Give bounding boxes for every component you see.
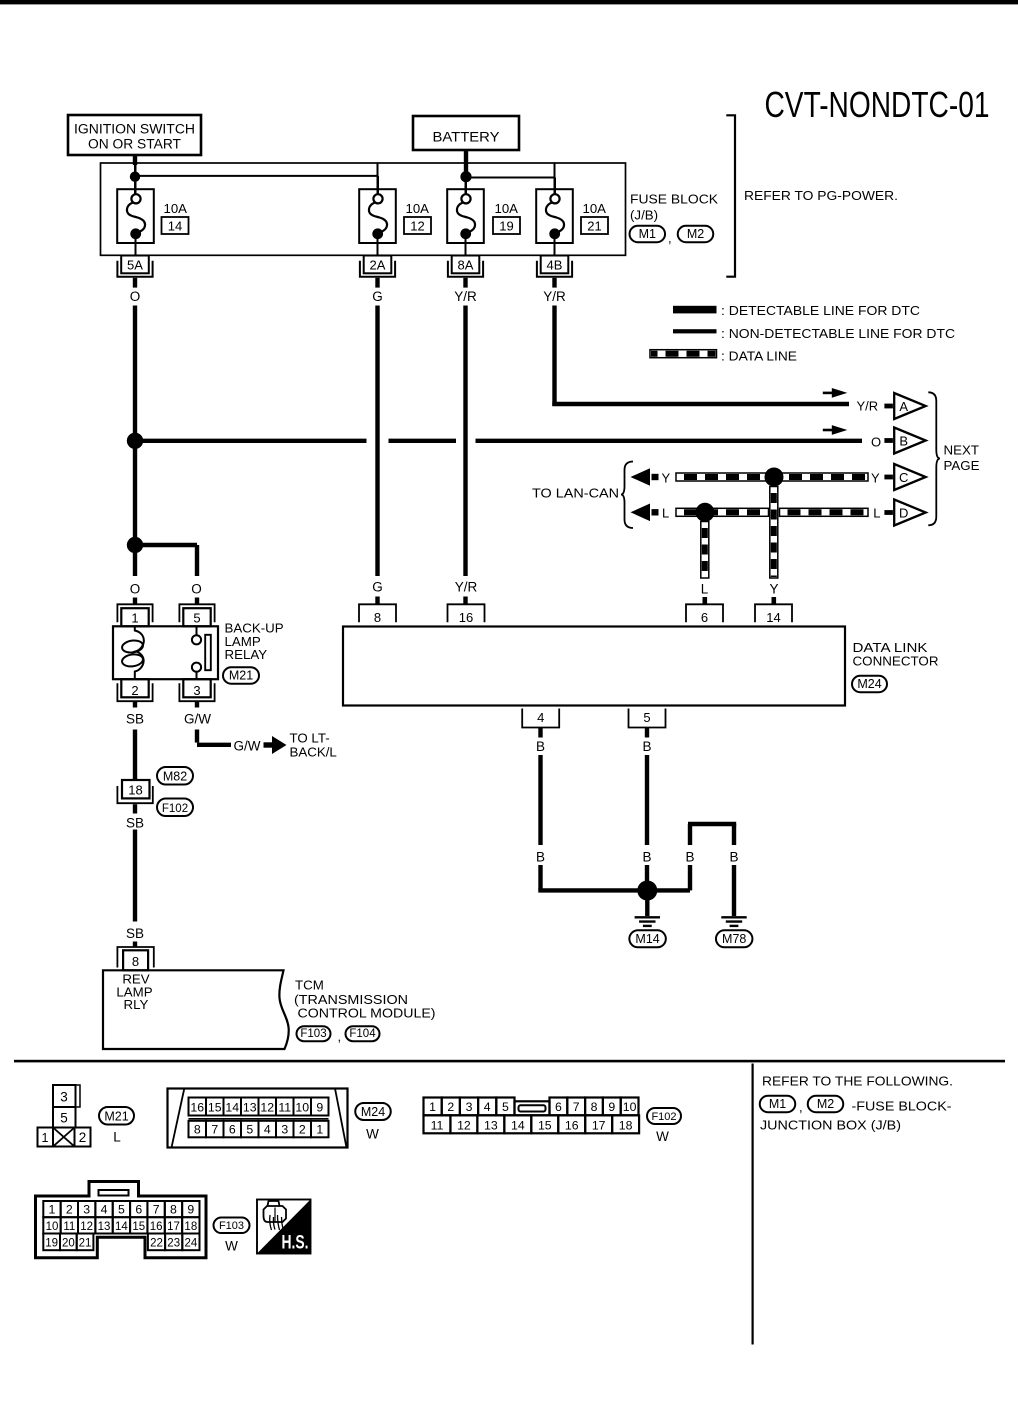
- page top border: [0, 0, 1018, 4]
- connector F103 label: [297, 1026, 331, 1041]
- svg-text:16: 16: [150, 1221, 163, 1233]
- connector view F102: [424, 1098, 442, 1116]
- DLC pin 5: [629, 709, 666, 728]
- svg-text:10A: 10A: [406, 201, 430, 216]
- svg-text:3: 3: [281, 1123, 288, 1137]
- svg-text:BACK/L: BACK/L: [290, 744, 337, 759]
- svg-text:CONNECTOR: CONNECTOR: [853, 654, 939, 669]
- svg-text:B: B: [729, 849, 738, 864]
- wire Y/R to next page A: [552, 402, 849, 406]
- ground M78: [721, 916, 746, 918]
- connector view M21: [53, 1085, 76, 1107]
- svg-text:W: W: [225, 1238, 238, 1253]
- wire Y/R vertical 4B: [552, 306, 556, 407]
- svg-text:13: 13: [243, 1100, 257, 1114]
- label 21 box: [581, 217, 608, 234]
- fuse at x=554.5: [536, 189, 573, 243]
- svg-text:14: 14: [511, 1118, 525, 1132]
- wire branch to relay pin 5: [135, 543, 197, 547]
- svg-text:PAGE: PAGE: [944, 458, 980, 473]
- svg-text:RLY: RLY: [124, 997, 149, 1012]
- svg-text:14: 14: [115, 1221, 128, 1233]
- svg-text:10A: 10A: [495, 201, 519, 216]
- svg-text:18: 18: [184, 1221, 197, 1233]
- arrow direction O: [832, 425, 848, 435]
- svg-text:B: B: [536, 849, 545, 864]
- svg-text:O: O: [130, 582, 141, 597]
- stub pin5: [195, 598, 199, 605]
- svg-text:2: 2: [447, 1100, 454, 1114]
- stub pin1: [133, 598, 137, 605]
- data link connector box: [343, 627, 845, 706]
- H.S. icon: [264, 1206, 287, 1222]
- svg-text:9: 9: [608, 1100, 615, 1114]
- svg-text:2: 2: [299, 1123, 306, 1137]
- wire O vertical: [133, 306, 137, 577]
- ground bus horizontal: [538, 888, 690, 892]
- wire battery to fuse block: [464, 150, 468, 172]
- svg-text:L: L: [701, 582, 709, 597]
- svg-text:: DETECTABLE LINE FOR DTC: : DETECTABLE LINE FOR DTC: [721, 303, 920, 318]
- svg-text:2: 2: [131, 683, 138, 698]
- svg-text:15: 15: [538, 1118, 552, 1132]
- connector F103 view label: [214, 1218, 250, 1234]
- svg-text:SB: SB: [126, 712, 144, 727]
- H.S. mark: [257, 1200, 311, 1254]
- DLC pin 14: [755, 604, 792, 622]
- svg-text:6: 6: [229, 1123, 236, 1137]
- wire G/W branch: [195, 730, 199, 743]
- connector F104 label: [346, 1026, 380, 1041]
- svg-text:F104: F104: [349, 1028, 376, 1040]
- DLC pin 6: [686, 604, 723, 622]
- fuse at x=135.5: [117, 189, 154, 243]
- wire G vertical: [375, 306, 379, 577]
- arrow to lan-can Y: [631, 468, 651, 486]
- svg-text:6: 6: [135, 1203, 142, 1217]
- wire ignition to fuse block: [133, 155, 137, 165]
- svg-text:F102: F102: [162, 803, 188, 815]
- svg-text:CVT-NONDTC-01: CVT-NONDTC-01: [765, 84, 990, 125]
- svg-text:,: ,: [668, 231, 672, 246]
- wire B from 4: [538, 755, 542, 845]
- svg-text:M1: M1: [769, 1097, 786, 1111]
- svg-text:W: W: [366, 1127, 379, 1142]
- svg-text:5: 5: [118, 1203, 125, 1217]
- connector M21 view label: [99, 1107, 134, 1125]
- svg-text:TO LAN-CAN: TO LAN-CAN: [532, 486, 619, 501]
- svg-text:M2: M2: [817, 1097, 834, 1111]
- svg-text:14: 14: [168, 218, 182, 233]
- TCM box: [103, 970, 289, 1049]
- legend non-detectable line: [673, 329, 717, 333]
- svg-text:F102: F102: [651, 1111, 676, 1123]
- connector F102 label: [157, 799, 193, 817]
- svg-text:3: 3: [193, 683, 200, 698]
- in-line connector 18: [122, 780, 150, 798]
- connector view M24: [168, 1089, 348, 1148]
- svg-text:L: L: [873, 506, 880, 521]
- relay coil: [135, 626, 144, 679]
- svg-text:REFER TO THE FOLLOWING.: REFER TO THE FOLLOWING.: [762, 1074, 953, 1089]
- svg-text:5A: 5A: [127, 258, 143, 273]
- svg-text:7: 7: [211, 1123, 218, 1137]
- svg-text:TO LT-: TO LT-: [290, 731, 330, 746]
- stub below 4: [538, 728, 542, 738]
- svg-text:7: 7: [153, 1203, 160, 1217]
- svg-text:3: 3: [466, 1100, 473, 1114]
- svg-text:8: 8: [170, 1203, 177, 1217]
- connector M2 ref: [808, 1096, 844, 1113]
- connector 2A: [364, 256, 392, 274]
- data line Y horizontal: [676, 473, 868, 481]
- label 19 box: [493, 217, 520, 234]
- relay pin 1: [117, 604, 152, 622]
- svg-text:8A: 8A: [458, 258, 474, 273]
- data line Y vertical: [770, 487, 778, 579]
- svg-text:M24: M24: [857, 677, 881, 691]
- svg-text:9: 9: [316, 1100, 323, 1114]
- svg-text:O: O: [191, 582, 202, 597]
- svg-text:JUNCTION BOX (J/B): JUNCTION BOX (J/B): [760, 1117, 901, 1132]
- relay contact: [192, 635, 201, 644]
- svg-text:19: 19: [45, 1238, 58, 1250]
- label 12 box: [404, 217, 431, 234]
- off-page connector B: [894, 428, 926, 454]
- wire O horizontal to next page B: [135, 439, 367, 443]
- svg-text:DATA LINK: DATA LINK: [853, 640, 928, 655]
- connector M82 label: [157, 767, 193, 785]
- svg-text:6: 6: [555, 1100, 562, 1114]
- svg-text:B: B: [536, 739, 545, 754]
- svg-text:8: 8: [194, 1123, 201, 1137]
- svg-text:3: 3: [60, 1090, 68, 1105]
- svg-text:5: 5: [193, 610, 200, 625]
- brace lan-can: [621, 462, 633, 529]
- legend data line: [650, 350, 717, 358]
- svg-text:5: 5: [60, 1111, 68, 1126]
- svg-text:10A: 10A: [164, 201, 188, 216]
- relay pin 5: [179, 604, 214, 622]
- svg-text:(J/B): (J/B): [630, 208, 658, 223]
- svg-text:C: C: [899, 470, 908, 485]
- svg-text:8: 8: [132, 954, 139, 969]
- brace next page: [928, 392, 940, 525]
- svg-text:CONTROL MODULE): CONTROL MODULE): [298, 1006, 436, 1021]
- svg-text:20: 20: [62, 1238, 75, 1250]
- wire B resume 5: [645, 865, 649, 884]
- svg-text:1: 1: [429, 1100, 436, 1114]
- svg-text:24: 24: [185, 1238, 198, 1250]
- svg-text:SB: SB: [126, 815, 144, 830]
- svg-text:RELAY: RELAY: [225, 647, 268, 662]
- stub below 5: [645, 728, 649, 738]
- svg-text:15: 15: [208, 1100, 222, 1114]
- connector 4B: [541, 256, 569, 274]
- TCM pin 8: [117, 947, 153, 968]
- svg-text:B: B: [642, 739, 651, 754]
- svg-text:23: 23: [167, 1238, 180, 1250]
- svg-text:12: 12: [80, 1221, 93, 1233]
- svg-text:W: W: [656, 1129, 669, 1144]
- svg-text:M14: M14: [635, 932, 659, 946]
- svg-text:11: 11: [431, 1118, 444, 1132]
- svg-text:G: G: [372, 579, 383, 594]
- connector M24 label: [852, 676, 887, 693]
- svg-text:16: 16: [565, 1118, 579, 1132]
- svg-text:: NON-DETECTABLE LINE FOR DTC: : NON-DETECTABLE LINE FOR DTC: [721, 326, 955, 341]
- svg-text:1: 1: [49, 1203, 56, 1217]
- svg-text:L: L: [662, 506, 669, 521]
- svg-text:12: 12: [260, 1100, 274, 1114]
- svg-text:: DATA LINE: : DATA LINE: [721, 349, 797, 364]
- wire ignition feed to fuse 12: [135, 175, 378, 177]
- ground junction dot: [637, 881, 657, 901]
- battery box: [413, 116, 519, 150]
- DLC pin 8: [359, 604, 396, 622]
- svg-text:8: 8: [591, 1100, 598, 1114]
- svg-text:M78: M78: [722, 932, 746, 946]
- svg-text:3: 3: [83, 1203, 90, 1217]
- stub Y/R: [463, 597, 467, 605]
- svg-text:Y/R: Y/R: [857, 399, 879, 414]
- stub above pin 8: [133, 942, 137, 948]
- svg-text:Y: Y: [769, 582, 778, 597]
- relay pin 2: [121, 679, 148, 697]
- svg-text:F103: F103: [300, 1028, 326, 1040]
- label 14 box: [162, 217, 189, 234]
- connector M1 ref: [760, 1096, 796, 1113]
- svg-text:16: 16: [190, 1100, 204, 1114]
- svg-text:6: 6: [701, 610, 708, 625]
- off-page connector C: [894, 464, 926, 490]
- stub pin3: [195, 701, 199, 707]
- svg-text:4: 4: [101, 1203, 108, 1217]
- connector 5A: [121, 256, 149, 274]
- svg-text:H.S.: H.S.: [282, 1233, 309, 1254]
- svg-text:G/W: G/W: [234, 739, 261, 754]
- connector M1: [630, 226, 666, 243]
- wire SB down: [133, 830, 137, 922]
- fuse at x=377.5: [359, 189, 396, 243]
- svg-text:12: 12: [457, 1118, 471, 1132]
- svg-text:17: 17: [167, 1221, 180, 1233]
- data line L vertical: [701, 522, 709, 579]
- svg-text:,: ,: [338, 1029, 342, 1044]
- svg-text:-FUSE BLOCK-: -FUSE BLOCK-: [852, 1099, 952, 1114]
- svg-text:B: B: [685, 849, 694, 864]
- wire B from 5: [645, 755, 649, 845]
- relay pin 3: [183, 679, 210, 697]
- svg-text:4B: 4B: [547, 258, 563, 273]
- bridge to M78 ground: [688, 822, 736, 826]
- svg-text:1: 1: [42, 1131, 49, 1145]
- svg-text:8: 8: [374, 610, 381, 625]
- svg-text:14: 14: [766, 610, 780, 625]
- svg-text:O: O: [871, 434, 881, 449]
- svg-text:G: G: [372, 289, 383, 304]
- svg-text:Y: Y: [662, 470, 671, 485]
- svg-text:Y/R: Y/R: [455, 579, 478, 594]
- svg-text:14: 14: [225, 1100, 239, 1114]
- svg-text:Y/R: Y/R: [454, 289, 477, 304]
- svg-text:IGNITION SWITCH: IGNITION SWITCH: [74, 122, 195, 137]
- svg-text:22: 22: [150, 1238, 163, 1250]
- DLC pin 16: [448, 604, 485, 622]
- svg-text:17: 17: [592, 1118, 606, 1132]
- svg-text:10A: 10A: [583, 201, 607, 216]
- data line L horizontal: [676, 508, 769, 516]
- svg-text:1: 1: [131, 610, 138, 625]
- svg-text:5: 5: [502, 1100, 509, 1114]
- svg-text:21: 21: [79, 1238, 92, 1250]
- junction dot ignition feed: [134, 165, 136, 172]
- data stub 6: [703, 597, 708, 604]
- connector view F103: [36, 1182, 207, 1258]
- svg-text:M1: M1: [639, 227, 656, 241]
- svg-text:M82: M82: [163, 769, 187, 783]
- divider vertical: [752, 1064, 754, 1345]
- svg-text:21: 21: [587, 218, 601, 233]
- svg-text:BATTERY: BATTERY: [433, 130, 500, 145]
- svg-text:2: 2: [66, 1203, 73, 1217]
- svg-text:O: O: [130, 289, 141, 304]
- connector M2: [678, 226, 714, 243]
- svg-text:10: 10: [623, 1100, 637, 1114]
- junction dot Y data: [765, 468, 784, 487]
- ignition switch box: [68, 115, 201, 155]
- svg-text:18: 18: [128, 783, 142, 798]
- svg-text:12: 12: [410, 218, 424, 233]
- fuse at x=465.5: [447, 189, 484, 243]
- svg-text:NEXT: NEXT: [944, 442, 979, 457]
- svg-text:9: 9: [187, 1203, 194, 1217]
- svg-text:16: 16: [459, 610, 473, 625]
- svg-text:5: 5: [643, 710, 650, 725]
- arrow to lan-can L: [631, 504, 651, 522]
- svg-text:10: 10: [46, 1221, 59, 1233]
- svg-text:11: 11: [278, 1100, 291, 1114]
- wire battery feed to fuse 21: [466, 177, 555, 179]
- fuse block outline: [101, 163, 626, 255]
- junction dot to relay coil: [127, 537, 143, 553]
- ground M14: [635, 916, 660, 918]
- connector 8A: [452, 256, 480, 274]
- svg-text:,: ,: [799, 1100, 803, 1115]
- stub below 18: [133, 804, 137, 813]
- separator line: [14, 1060, 1005, 1063]
- connector M24 view label: [355, 1103, 391, 1120]
- svg-text:19: 19: [499, 218, 513, 233]
- wire SB down to 18: [133, 730, 137, 781]
- svg-text:TCM: TCM: [295, 978, 324, 993]
- wire B resume 4: [538, 865, 542, 890]
- DLC pin 4: [522, 709, 559, 728]
- svg-text:4: 4: [264, 1123, 271, 1137]
- svg-text:2: 2: [79, 1130, 87, 1145]
- stub pin2: [133, 701, 137, 707]
- svg-text:15: 15: [132, 1221, 145, 1233]
- svg-text:5: 5: [246, 1123, 253, 1137]
- svg-text:M24: M24: [361, 1105, 385, 1119]
- svg-text:7: 7: [573, 1100, 580, 1114]
- svg-text:M2: M2: [687, 227, 704, 241]
- svg-text:13: 13: [98, 1221, 111, 1233]
- off-page connector A: [894, 393, 926, 419]
- svg-text:REFER TO PG-POWER.: REFER TO PG-POWER.: [744, 188, 898, 203]
- back-up lamp relay box: [113, 626, 218, 679]
- junction dot O wire: [127, 433, 143, 449]
- svg-text:13: 13: [484, 1118, 498, 1132]
- ground stem M14: [645, 891, 649, 917]
- svg-text:4: 4: [484, 1100, 491, 1114]
- bracket refer pg-power: [726, 115, 735, 276]
- arrow direction Y/R: [832, 388, 848, 398]
- stub G: [375, 597, 379, 605]
- wire Y/R vertical 8A: [463, 306, 467, 577]
- svg-text:ON OR START: ON OR START: [88, 137, 181, 152]
- connector F102 view label: [647, 1108, 681, 1124]
- svg-text:SB: SB: [126, 926, 144, 941]
- svg-text:2A: 2A: [370, 258, 386, 273]
- svg-text:M21: M21: [104, 1109, 128, 1123]
- svg-text:11: 11: [63, 1221, 75, 1233]
- svg-text:G/W: G/W: [184, 712, 211, 727]
- junction dot L data: [696, 503, 715, 522]
- svg-text:Y/R: Y/R: [543, 289, 566, 304]
- connector M21 label: [223, 667, 259, 684]
- arrow to LT-BACK/L: [272, 736, 287, 754]
- svg-text:B: B: [899, 433, 908, 448]
- legend detectable line: [673, 306, 717, 314]
- svg-text:F103: F103: [219, 1220, 244, 1232]
- svg-text:FUSE BLOCK: FUSE BLOCK: [630, 192, 718, 207]
- svg-text:10: 10: [295, 1100, 309, 1114]
- svg-text:D: D: [899, 505, 908, 520]
- svg-text:18: 18: [619, 1118, 633, 1132]
- svg-text:A: A: [899, 399, 908, 414]
- svg-text:Y: Y: [871, 470, 880, 485]
- svg-text:1: 1: [316, 1123, 323, 1137]
- svg-text:M21: M21: [229, 669, 253, 683]
- junction dot battery feed: [460, 171, 471, 182]
- off-page connector D: [894, 500, 926, 526]
- svg-text:L: L: [113, 1130, 121, 1145]
- svg-text:B: B: [642, 849, 651, 864]
- data stub 14: [772, 597, 777, 604]
- svg-text:4: 4: [537, 710, 544, 725]
